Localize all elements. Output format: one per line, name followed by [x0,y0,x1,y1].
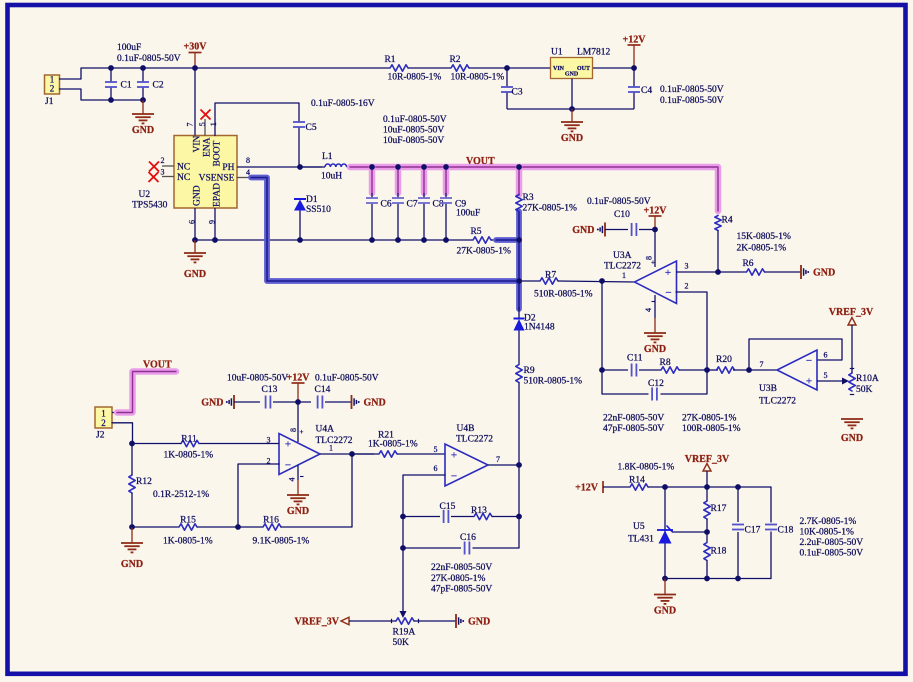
pin 9 EPAD wire [214,208,216,240]
svg-text:TPS5430: TPS5430 [132,201,168,211]
svg-text:C2: C2 [153,81,164,91]
svg-text:SS510: SS510 [306,205,331,215]
node pin2 feedback [235,524,241,530]
svg-text:4: 4 [644,308,653,312]
node VOUT C6 [369,164,375,170]
svg-text:D1: D1 [306,195,318,205]
node pin3 R4 R6 [715,269,721,275]
wire R9 to U4B output [518,383,520,466]
svg-text:100R-0805-1%: 100R-0805-1% [682,424,741,434]
op-amp U3B TLC2272 [777,350,817,390]
no connect X pin3 [149,172,159,182]
svg-text:15K-0805-1%: 15K-0805-1% [737,232,791,242]
svg-text:+12V: +12V [287,373,311,384]
resistor R13 [474,513,492,519]
ground below U2 [194,240,196,253]
svg-text:C10: C10 [614,210,630,220]
wire R14 to rail [648,486,665,488]
pin 4 VSENSE stub [237,177,252,179]
wire VOUT drop to R3 [516,167,523,195]
wire output vertical [518,465,520,548]
pin 6 GND wire [194,208,196,240]
svg-text:10uF-0805-50V: 10uF-0805-50V [383,126,444,136]
svg-text:2.7K-0805-1%: 2.7K-0805-1% [800,517,857,527]
node feedback right [704,367,710,373]
ground below U1 [571,109,573,122]
svg-text:C12: C12 [648,379,664,389]
wire R17 top lead [706,487,708,501]
svg-text:+12V: +12V [623,35,647,46]
svg-text:GND: GND [572,225,594,236]
node PH C5 D1 [297,164,303,170]
svg-text:C6: C6 [381,200,392,210]
ground right of R19A [455,614,457,628]
svg-text:U4B: U4B [457,424,475,434]
svg-text:6: 6 [824,351,828,360]
wire C13 to +12V node [273,401,311,403]
svg-text:GND: GND [121,559,143,570]
capacitor C11 [631,364,633,377]
svg-text:8: 8 [246,156,250,165]
node C2 bottom [140,97,146,103]
node D1 anode [297,237,303,243]
node C7 bottom [395,237,401,243]
wire U4B output [488,464,519,466]
svg-text:U2: U2 [139,190,151,200]
svg-text:10uH: 10uH [321,172,342,182]
capacitor C16 [464,542,466,555]
wire C16 branch [403,547,461,549]
wire VOUT drop to C6 [369,167,376,193]
svg-text:GND: GND [468,617,490,628]
capacitor C4 [633,68,635,87]
svg-text:R4: R4 [722,216,733,226]
svg-text:0.1uF-0805-50V: 0.1uF-0805-50V [660,96,724,106]
svg-text:510R-0805-1%: 510R-0805-1% [524,377,583,387]
wire VOUT J2 highlighted [117,372,176,413]
node C1 bottom [108,97,114,103]
wire R2 to C3 [469,67,550,69]
svg-text:22nF-0805-50V: 22nF-0805-50V [603,414,664,424]
pin 3 NC stub [162,176,174,178]
resistor R17 [704,501,710,519]
potentiometer R10A [849,373,855,391]
svg-text:GND: GND [644,344,666,355]
wire U1 out to C4 [593,67,634,69]
capacitor C18 [770,487,772,522]
svg-text:TLC2272: TLC2272 [759,397,796,407]
resistor R14 [630,484,648,490]
svg-text:U4A: U4A [316,425,335,435]
svg-text:50K: 50K [393,638,410,648]
node bottom C17 [735,576,741,582]
ground left of C10 [604,223,606,237]
svg-text:0.1uF-0805-50V: 0.1uF-0805-50V [315,374,379,384]
svg-text:+: + [665,267,671,279]
svg-text:+: + [806,376,812,388]
resistor R9 [516,365,522,383]
svg-text:50K: 50K [856,385,873,395]
svg-text:8: 8 [289,428,298,432]
svg-text:1K-0805-1%: 1K-0805-1% [163,537,213,547]
diode D2 1N4148 [514,318,525,320]
wire U3A pin3 [676,271,718,273]
svg-text:3: 3 [161,168,165,177]
node pin6 C15 [400,514,406,520]
svg-text:5: 5 [824,371,828,380]
svg-text:2: 2 [685,282,689,291]
wire R17 to R18 [706,519,708,542]
svg-text:27K-0805-1%: 27K-0805-1% [682,414,736,424]
wire C10 to +12V node [639,229,655,231]
node U4B output [516,462,522,468]
op-amp U4A TLC2272 [279,434,320,475]
svg-text:C5: C5 [306,123,317,133]
inductor L1 [325,164,347,167]
ground below U4A [297,480,299,495]
svg-text:GND: GND [841,433,863,444]
svg-text:U1: U1 [551,48,563,58]
svg-text:TLC2272: TLC2272 [456,435,493,445]
resistor R4 [715,216,721,231]
svg-text:C7: C7 [407,200,418,210]
wire U3A pin4 to ground [654,295,656,318]
no connect X on ENA [201,110,211,120]
node C9 bottom [443,237,449,243]
svg-text:C14: C14 [315,385,331,395]
svg-text:+12V: +12V [644,206,668,217]
node U3A output feedback [599,278,605,284]
capacitor C15 [443,510,445,523]
svg-text:1N4148: 1N4148 [524,323,555,333]
svg-text:0.1uF-0805-50V: 0.1uF-0805-50V [587,197,651,207]
ground below R12 [131,527,133,543]
resistor R7 [540,278,558,284]
svg-text:R6: R6 [742,259,753,269]
pin 7 VIN wire from +30V rail [194,68,196,136]
wire U4A pin2 [238,464,279,527]
wire R15 to R16 [197,526,263,528]
svg-text:R19A: R19A [393,628,416,638]
svg-text:GND: GND [193,185,203,206]
svg-text:+: + [451,450,457,462]
wire VOUT drop to C7 [395,167,402,193]
svg-text:EPAD: EPAD [213,183,223,207]
wire U4A pin3 [199,443,279,445]
svg-text:R11: R11 [181,435,197,445]
node VOUT C7 [395,164,401,170]
svg-text:U3B: U3B [759,384,777,394]
wire feedback left vertical [601,281,603,370]
node gnd pin6 [192,237,198,243]
svg-text:+: + [285,439,291,451]
svg-text:R15: R15 [180,516,196,526]
node pin6 C16 [400,545,406,551]
svg-text:10R-0805-1%: 10R-0805-1% [451,73,505,83]
svg-text:LM7812: LM7812 [577,48,611,58]
wire R20 left lead [707,369,718,371]
ground below TL431 [664,579,666,595]
svg-text:R9: R9 [524,366,535,376]
svg-text:VIN: VIN [553,66,565,72]
svg-text:GND: GND [654,606,676,617]
ground right of R6 [800,265,802,279]
node C2 top [140,65,146,71]
node U3A vplus [652,227,658,233]
svg-text:GND: GND [364,398,386,409]
no connect X pin2 [149,162,159,172]
svg-text:47pF-0805-50V: 47pF-0805-50V [603,424,664,434]
resistor R18 [704,543,710,561]
node +30V on rail [192,65,198,71]
wire C15 to R13 [451,516,474,518]
wire R21 left lead [352,453,379,455]
node bottom R18 [704,576,710,582]
wire R11 to J2 node [132,443,181,445]
capacitor C3 [506,68,508,87]
wire R12 top lead [131,444,133,476]
svg-text:R10A: R10A [856,374,879,384]
svg-text:9.1K-0805-1%: 9.1K-0805-1% [253,537,310,547]
capacitor C6 [371,193,373,198]
svg-text:1.8K-0805-1%: 1.8K-0805-1% [618,463,675,473]
wire R7 left lead [519,280,540,282]
svg-text:C11: C11 [627,354,643,364]
capacitor C8 [423,193,425,198]
wire C15 R13 branch [403,516,440,518]
resistor R15 [179,524,197,530]
svg-text:10K-0805-1%: 10K-0805-1% [800,528,854,538]
wire U1 gnd pin [571,79,573,110]
resistor R20 [717,367,735,373]
node U4A output [349,451,355,457]
wire R19A right lead [414,620,456,622]
connector J2 [95,407,112,428]
svg-text:R8: R8 [660,358,671,368]
svg-text:BOOT: BOOT [213,140,223,166]
svg-text:1: 1 [101,408,106,418]
svg-text:C4: C4 [641,86,652,96]
svg-text:4: 4 [288,478,297,482]
wire R8 to node [679,369,707,371]
svg-text:C1: C1 [121,81,132,91]
resistor R6 [747,269,765,275]
svg-text:TLC2272: TLC2272 [604,262,641,272]
svg-text:7: 7 [760,360,764,369]
resistor R2 [451,65,469,71]
wire +12V to R14 [603,486,630,488]
node J2 R11 R12 [129,441,135,447]
pin 1 BOOT wire to C5 [215,103,299,136]
wire ref to TL431 [672,531,707,533]
ground right of C14 [351,395,353,409]
wire C12 right branch [661,370,707,394]
svg-text:2: 2 [50,84,55,94]
wire VOUT drop to C8 [421,167,428,193]
capacitor C17 [737,487,739,522]
pin 2 NC stub [162,165,174,167]
node bus R5 [516,237,522,243]
wire R1 to R2 [408,67,451,69]
svg-text:+: + [651,259,655,267]
wire VOUT drop to C9 [443,167,450,193]
svg-text:R20: R20 [716,355,732,365]
svg-text:R2: R2 [449,55,460,65]
svg-text:R5: R5 [470,227,481,237]
node ref divider [704,529,710,535]
svg-text:VSENSE: VSENSE [199,174,235,184]
svg-text:+: + [300,428,304,436]
shunt reference U5 TL431 [664,487,666,579]
node U1 gnd [569,106,575,112]
node U3B output [746,367,752,373]
svg-text:−: − [285,460,291,472]
svg-text:27K-0805-1%: 27K-0805-1% [431,574,485,584]
node bus R7 [516,278,522,284]
wire R20 to U3B [733,369,777,371]
node feedback left [599,367,605,373]
svg-text:2.2uF-0805-50V: 2.2uF-0805-50V [800,538,864,548]
wire R18 bottom lead [706,561,708,579]
svg-text:GND: GND [184,269,206,280]
svg-text:9: 9 [207,220,216,224]
wire VOUT rail highlighted [350,167,718,211]
svg-text:6: 6 [434,464,438,473]
svg-text:GND: GND [287,506,309,517]
wire C13 left lead [234,401,260,403]
svg-text:+30V: +30V [184,42,208,53]
ground below C2 [142,100,144,114]
wire R12 bottom lead [131,493,133,527]
resistor R3 [516,195,522,212]
svg-text:7: 7 [186,123,195,127]
svg-text:GND: GND [561,133,583,144]
svg-text:R3: R3 [523,193,534,203]
svg-text:22nF-0805-50V: 22nF-0805-50V [431,563,492,573]
svg-text:0.1uF-0805-50V: 0.1uF-0805-50V [383,115,447,125]
svg-text:10R-0805-1%: 10R-0805-1% [388,73,442,83]
wire R4 to pin3 node [717,231,719,273]
svg-text:PH: PH [222,163,234,173]
svg-text:0.1uF-0805-50V: 0.1uF-0805-50V [660,85,724,95]
wire C16 right lead [473,547,519,549]
svg-text:C3: C3 [512,88,523,98]
svg-text:GND: GND [813,268,835,279]
wiper arrow R19A [400,611,407,618]
svg-text:VOUT: VOUT [143,360,172,371]
svg-text:VREF_3V: VREF_3V [295,617,340,628]
svg-text:10uF-0805-50V: 10uF-0805-50V [227,374,288,384]
wire U3B pin5 to R10A wiper [817,380,843,382]
svg-text:TL431: TL431 [628,535,654,545]
wire U4A output [320,453,374,455]
svg-text:7: 7 [496,455,500,464]
wire TL431 bottom rail [665,578,771,580]
capacitor C7 [397,193,399,198]
resistor R21 [379,451,397,457]
wire J1 pin1 to top rail [60,68,82,79]
node VOUT C8 [421,164,427,170]
wire C10 left lead [605,229,628,231]
svg-text:0.1uF-0805-50V: 0.1uF-0805-50V [117,54,181,64]
svg-text:L1: L1 [322,152,333,162]
wire U4A pin8 supply [297,402,299,442]
svg-text:J2: J2 [96,431,105,441]
op-amp U3A TLC2272 [635,261,677,304]
ground left of C13 [233,395,235,409]
pin 5 ENA stub [204,119,206,136]
svg-text:ENA: ENA [203,137,213,157]
node VOUT C9 [443,164,449,170]
capacitor C2 [142,68,144,82]
node rail R17 [704,484,710,490]
node rail C17 [735,484,741,490]
capacitor C13 [265,396,267,409]
svg-text:R13: R13 [471,506,487,516]
svg-text:GND: GND [201,398,223,409]
svg-text:NC: NC [177,163,190,173]
node gnd epad [212,237,218,243]
svg-text:R17: R17 [711,504,727,514]
capacitor C14 [317,396,319,409]
svg-text:R12: R12 [136,477,152,487]
wire D2 to R9 [518,331,520,365]
svg-text:C15: C15 [440,502,456,512]
svg-text:0.1uF-0805-50V: 0.1uF-0805-50V [800,549,864,559]
wire C11 to R8 [639,369,661,371]
resistor R5 [473,237,491,243]
ground below U3A [654,318,656,333]
regulator U1 LM7812 [551,58,593,79]
node C6 bottom [369,237,375,243]
svg-text:VOUT: VOUT [466,156,495,167]
svg-text:−: − [665,287,671,299]
wire R15 left lead [132,526,179,528]
wire C14 to ground [325,401,352,403]
capacitor C10 [631,223,633,236]
svg-text:1: 1 [329,444,333,453]
node U1 out [631,65,637,71]
svg-text:TLC2272: TLC2272 [316,436,353,446]
node R12 R15 gnd [129,524,135,530]
wire VSENSE bus highlighted [251,178,519,282]
node C1 top [108,65,114,71]
svg-text:C17: C17 [745,526,761,536]
svg-text:100uF: 100uF [117,43,141,53]
svg-text:2K-0805-1%: 2K-0805-1% [737,244,787,254]
node U4A vplus [295,399,301,405]
wire L1 to VOUT net [300,166,325,168]
svg-text:R1: R1 [384,55,395,65]
svg-text:U3A: U3A [613,251,632,261]
svg-text:C13: C13 [262,385,278,395]
node bottom U5 [662,576,668,582]
svg-text:1: 1 [209,122,218,126]
resistor R1 [390,65,408,71]
wire bus to D2 [518,307,520,319]
wire C12 branch [602,370,648,394]
wire ground rail under U2 [195,239,473,241]
svg-text:0.1R-2512-1%: 0.1R-2512-1% [153,490,209,500]
node C8 bottom [421,237,427,243]
svg-text:2: 2 [101,418,106,428]
svg-text:+12V: +12V [575,483,599,494]
svg-text:C8: C8 [433,200,444,210]
capacitor C1 [110,68,112,82]
capacitor C9 [445,193,447,198]
svg-text:5: 5 [198,122,207,126]
wire R5 right lead [491,239,498,241]
